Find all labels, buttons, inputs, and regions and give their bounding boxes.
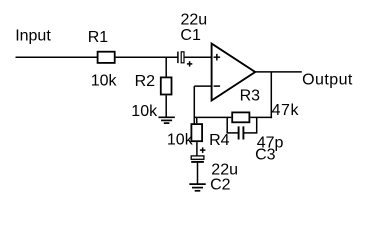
svg-text:C1: C1 (180, 27, 201, 44)
svg-text:22u: 22u (181, 11, 208, 28)
resistor R4 (191, 124, 202, 141)
resistor R3 (232, 112, 249, 122)
wire: input to R1 (16, 56, 98, 58)
op-amp U1 (212, 44, 256, 101)
svg-text:R4: R4 (209, 132, 230, 149)
capacitor C2 (191, 147, 205, 162)
svg-text:Output: Output (302, 72, 353, 89)
capacitor C1 (178, 52, 192, 67)
svg-text:R3: R3 (240, 87, 261, 104)
wire: feedback right segment (250, 116, 272, 118)
wire: R2 to ground (165, 95, 167, 117)
wire: output (255, 71, 302, 73)
wire: inverting input (194, 85, 211, 87)
wire: C1 to op-amp noninverting input (184, 56, 211, 58)
resistor R1 (98, 52, 115, 63)
svg-text:C2: C2 (210, 176, 231, 193)
wire: feedback left segment (194, 116, 232, 118)
wire: R4 to C2 (196, 142, 198, 156)
wire: inverting node down to feedback (193, 86, 195, 124)
wire: output node down to feedback (270, 72, 272, 118)
svg-text:47k: 47k (272, 102, 300, 119)
capacitor C3 (227, 117, 257, 139)
ground (C2) (189, 184, 205, 191)
ground (R2) (158, 117, 174, 123)
svg-text:R2: R2 (135, 73, 156, 90)
svg-text:C3: C3 (255, 147, 276, 164)
wire: R1 to C1 (116, 56, 178, 58)
svg-text:R1: R1 (88, 29, 109, 46)
wire: R4 stub to feedback wire (196, 117, 198, 123)
svg-text:10k: 10k (167, 132, 194, 149)
wire: C2 to ground (197, 162, 199, 184)
svg-text:Input: Input (15, 27, 51, 44)
svg-text:10k: 10k (91, 73, 118, 90)
wire: node to R2 (165, 57, 167, 77)
svg-text:10k: 10k (131, 103, 158, 120)
resistor R2 (161, 77, 172, 94)
